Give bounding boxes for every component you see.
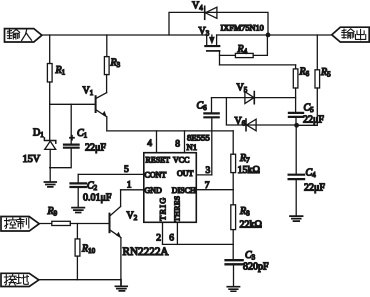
resistor R8: [231, 205, 236, 259]
svg-text:DISCH: DISCH: [172, 186, 196, 195]
capacitor C2: [71, 174, 87, 207]
wire pins 2/6 to timing node: [163, 243, 234, 245]
pin 2 wire: [162, 222, 164, 244]
mosfet V3: [205, 35, 219, 65]
wire R4 branch: [220, 54, 236, 56]
wire V6 connector and line: [226, 98, 296, 125]
capacitor C1: [50, 104, 79, 167]
wire ground line: [39, 279, 121, 281]
svg-text:VCC: VCC: [173, 156, 189, 165]
pin 1 wire: [121, 189, 144, 191]
svg-text:5: 5: [124, 165, 129, 175]
ground (C4): [290, 216, 303, 221]
capacitor C4: [289, 125, 305, 215]
transistor V2: [110, 190, 122, 280]
resistor R3: [104, 35, 109, 75]
node junction dot (296.6,125.3): [294, 123, 299, 128]
ground (C3): [227, 287, 239, 292]
wire V5 line: [212, 97, 296, 99]
svg-text:7: 7: [205, 181, 210, 191]
svg-text:CONT: CONT: [145, 171, 167, 180]
svg-text:8: 8: [175, 139, 180, 149]
wire V4 branch up: [169, 12, 268, 35]
svg-text:22kΩ: 22kΩ: [240, 220, 262, 231]
pin 3 wire: [196, 174, 212, 176]
svg-text:6: 6: [169, 233, 174, 243]
wire V1 base node line: [50, 103, 95, 105]
wire VCC line (V1 emitter to R7 top): [107, 130, 233, 132]
svg-text:22μF: 22μF: [304, 183, 325, 194]
svg-text:8E555: 8E555: [187, 133, 210, 143]
pin 6 wire: [176, 222, 178, 244]
diode V4: [205, 6, 217, 19]
svg-text:4: 4: [147, 139, 152, 149]
resistor R9: [52, 221, 71, 225]
svg-text:OUT: OUT: [177, 169, 194, 178]
svg-text:RN2222A: RN2222A: [123, 246, 169, 258]
pin 7 wire: [196, 189, 233, 191]
wire gate line to R6: [220, 64, 296, 66]
svg-text:820pF: 820pF: [243, 262, 269, 273]
svg-text:GND: GND: [145, 186, 163, 195]
svg-text:3: 3: [206, 166, 211, 176]
pin 8 wire: [184, 131, 186, 153]
svg-text:2: 2: [156, 233, 161, 243]
node ground label 接地: [1, 273, 39, 286]
svg-text:TRIG: TRIG: [159, 196, 168, 220]
zener D1: [44, 104, 55, 181]
svg-text:RESET: RESET: [146, 156, 171, 165]
resistor R7: [231, 131, 236, 205]
capacitor C3: [226, 260, 243, 286]
node control label 控制: [1, 217, 39, 232]
pin 5 wire: [78, 173, 144, 175]
ground (V2 emitter): [115, 280, 127, 291]
resistor R4: [235, 35, 267, 58]
svg-text:22μF: 22μF: [85, 143, 106, 154]
ground (C2): [72, 208, 84, 213]
svg-text:15kΩ: 15kΩ: [238, 165, 260, 176]
ground (D1): [44, 182, 56, 187]
op-amp U1 555 IC box N1: [144, 153, 197, 223]
svg-text:THRES: THRES: [173, 196, 182, 222]
resistor R6: [293, 65, 298, 112]
svg-text:22μF: 22μF: [303, 115, 324, 126]
wire main input line left: [42, 34, 207, 36]
svg-text:IXFM75N10: IXFM75N10: [221, 24, 264, 33]
svg-text:0.01μF: 0.01μF: [83, 193, 112, 204]
capacitor C6: [204, 98, 218, 175]
resistor R5: [297, 35, 320, 125]
capacitor C5: [289, 113, 303, 125]
resistor R1: [47, 35, 52, 104]
node junction dot (268,35): [266, 33, 271, 38]
node output label 输出: [332, 27, 369, 42]
svg-text:1: 1: [127, 180, 132, 190]
node input label 输入: [5, 29, 42, 42]
resistor R10: [75, 224, 80, 280]
diode V6: [246, 119, 256, 131]
diode V5: [245, 92, 254, 104]
svg-text:N1: N1: [187, 142, 198, 152]
wire main line right of mosfet: [217, 34, 332, 36]
svg-text:+: +: [69, 134, 74, 144]
pin 4 wire: [156, 131, 158, 153]
wire control line: [39, 223, 109, 225]
transistor V1: [96, 75, 107, 131]
svg-text:15V: 15V: [23, 154, 41, 165]
